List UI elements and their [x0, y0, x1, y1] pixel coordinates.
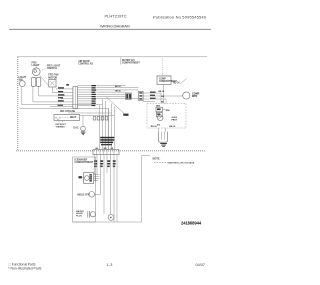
water valve label	[121, 58, 141, 65]
harness vertical 2	[102, 99, 104, 150]
relay element 1	[156, 107, 163, 112]
overload label	[172, 117, 178, 121]
svg-text:BK-16: BK-16	[115, 86, 121, 88]
svg-text:SWITCH: SWITCH	[47, 67, 57, 70]
mold heater	[89, 192, 101, 198]
wire pin6	[50, 105, 73, 107]
connector J1	[66, 84, 77, 109]
svg-text:1-3: 1-3	[106, 263, 112, 267]
air door label	[78, 60, 93, 66]
water valve plug	[88, 211, 96, 218]
compressor ground bars	[160, 143, 167, 147]
harness vertical 5	[111, 104, 113, 150]
wire color label stack	[91, 85, 96, 106]
header rule	[9, 28, 211, 30]
svg-text:04/07: 04/07	[196, 263, 206, 267]
svg-text:MOTOR: MOTOR	[48, 76, 57, 79]
wire mid labels	[115, 86, 121, 92]
bus labels	[70, 111, 77, 119]
diagonal wire lamp to fan box	[40, 75, 49, 85]
svg-text:* Non-Illustrated Parts: * Non-Illustrated Parts	[8, 266, 41, 270]
long lower left wire	[20, 108, 109, 149]
svg-text:DEFROST: DEFROST	[56, 124, 67, 126]
compressor feed wire	[162, 58, 164, 76]
wire labels left of connector	[58, 87, 64, 101]
svg-text:RD-16: RD-16	[151, 126, 158, 128]
harness label stack	[96, 137, 115, 150]
junction wires	[159, 85, 167, 104]
svg-text:LINE: LINE	[70, 111, 76, 113]
ground diagonal	[106, 97, 129, 116]
svg-text:WIRING DIAGRAM: WIRING DIAGRAM	[100, 24, 130, 28]
wire pin1	[56, 88, 73, 90]
svg-text:MTR: MTR	[192, 95, 197, 98]
freezer fan switch box	[49, 79, 56, 87]
svg-text:OVLD: OVLD	[172, 117, 178, 119]
compressor note box	[157, 76, 177, 85]
junction ring	[108, 215, 114, 221]
svg-text:LIGHT: LIGHT	[32, 63, 40, 67]
cabinet boundary bottom (hatched)	[16, 150, 205, 152]
svg-text:BK-16: BK-16	[169, 126, 176, 128]
wire fan box down	[52, 87, 73, 93]
cabinet boundary top (hatched)	[18, 56, 208, 58]
icemaker box bottom run	[73, 221, 142, 223]
wire bus y115	[80, 114, 115, 116]
svg-text:COMP: COMP	[159, 78, 166, 80]
connector J1 right pin wires	[78, 86, 92, 106]
EAC ground	[81, 132, 86, 135]
defrost heater bottom label	[56, 124, 67, 128]
door light switch	[19, 81, 25, 87]
cabinet boundary left (hatched)	[17, 57, 19, 151]
wire pin6 label	[58, 105, 64, 106]
run element U	[158, 132, 167, 143]
door switch label	[19, 76, 27, 82]
wire bus y113	[68, 112, 112, 114]
wire pin5	[61, 98, 73, 100]
freezer light label	[32, 61, 40, 68]
overload protector	[157, 115, 163, 121]
icemaker verticals below connector	[94, 155, 117, 222]
harness vertical 6	[114, 106, 116, 149]
wire door switch down	[22, 87, 103, 105]
note box tag	[173, 79, 187, 85]
svg-text:516: 516	[157, 125, 160, 127]
svg-text:PLUG: PLUG	[76, 215, 82, 217]
relay dashed box	[147, 104, 186, 129]
harness vertical 1	[99, 105, 101, 150]
harness vertical 3	[105, 101, 107, 150]
legend note	[153, 157, 195, 164]
water valve plug label	[76, 210, 84, 218]
wire socket2 down	[39, 86, 73, 96]
svg-text:RD6: RD6	[166, 110, 170, 112]
harness splice marks	[93, 117, 108, 120]
wires continuing right	[97, 86, 139, 99]
compressor label	[192, 92, 200, 98]
relay box bottom labels	[151, 126, 176, 128]
wires relay box to element	[159, 128, 166, 132]
svg-text:EAC: EAC	[74, 127, 79, 130]
right return wire	[142, 156, 151, 222]
svg-text:THERMO: THERMO	[56, 126, 66, 128]
inline connector B	[139, 91, 144, 100]
EAC label	[74, 127, 79, 130]
EAC element	[81, 115, 86, 131]
wire socket1 down	[33, 86, 73, 102]
svg-text:PLHT219TC: PLHT219TC	[105, 14, 127, 19]
cabinet pass connector	[93, 150, 119, 155]
wires to compressor cluster	[143, 92, 172, 102]
svg-text:PROT: PROT	[172, 120, 178, 122]
icemaker motor unit	[79, 173, 94, 184]
icemaker compartment label	[75, 158, 94, 164]
defrost heater bar	[54, 115, 80, 121]
freezer lamp	[32, 66, 40, 75]
lamp leader note	[41, 65, 61, 71]
svg-text:COMPARTMENT: COMPARTMENT	[75, 161, 94, 164]
relay wire tag	[163, 110, 170, 112]
freezer fan label	[48, 74, 58, 80]
icemaker wire labels	[94, 160, 115, 167]
inline connector A	[126, 93, 132, 99]
icemaker plug wires	[94, 174, 100, 182]
svg-text:RD-16: RD-16	[173, 82, 180, 84]
svg-text:241868944: 241868944	[181, 221, 202, 226]
svg-text:Publication No 5995545549: Publication No 5995545549	[153, 15, 207, 20]
svg-text:OR-16: OR-16	[115, 91, 121, 93]
relay element 2	[156, 112, 162, 116]
svg-text:MOLD HTR: MOLD HTR	[78, 195, 90, 197]
svg-text:NEUT: NEUT	[70, 117, 77, 119]
defrost ticks	[59, 121, 63, 123]
svg-text:NOTE:: NOTE:	[153, 157, 161, 160]
harness vertical 4	[108, 108, 110, 149]
compressor motor	[172, 92, 190, 99]
lamp socket 2	[36, 78, 40, 87]
icemaker compartment box	[73, 157, 96, 222]
lamp socket 1	[31, 78, 35, 87]
